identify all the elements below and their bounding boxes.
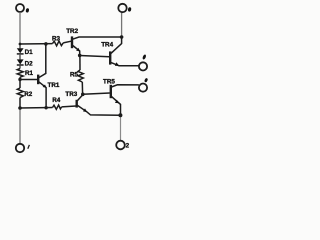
- svg-text:TR5: TR5: [103, 78, 115, 85]
- wire D2 to R1: [19, 66, 21, 69]
- transistor TR4: [101, 13, 139, 66]
- terminal T5 bottom-right: [116, 141, 129, 150]
- transistor TR3: [65, 91, 120, 115]
- node TR1 base junction: [18, 78, 21, 81]
- node TR2 emitter junction: [78, 54, 82, 58]
- node bottom-right junction: [118, 113, 122, 117]
- wire top-left vertical: [19, 12, 21, 44]
- transistor TR1: [38, 44, 60, 108]
- svg-text:D2: D2: [25, 60, 34, 67]
- wire R2 to bottom terminal: [19, 98, 21, 107]
- svg-text:TR2: TR2: [66, 28, 78, 35]
- wire TR2 emitter to TR4 base: [80, 56, 110, 57]
- wire branch to R3: [20, 43, 53, 45]
- svg-text:2: 2: [126, 143, 130, 150]
- resistor R2: [17, 88, 32, 98]
- wire R1 to TR1-base node: [19, 77, 21, 88]
- node R4 branch junction: [18, 106, 22, 110]
- diode D1: [17, 48, 33, 56]
- wire TR1 base: [20, 79, 37, 81]
- node TR1 collector junction: [44, 42, 48, 46]
- svg-text:R1: R1: [25, 70, 34, 77]
- diode D2: [17, 59, 33, 67]
- node TR2 collector junction: [120, 35, 124, 39]
- terminal T2 top-right: [118, 4, 131, 12]
- wire branch to R4: [20, 107, 53, 110]
- terminal T6 bottom-left: [16, 144, 30, 152]
- svg-text:R5: R5: [70, 71, 79, 78]
- svg-text:D1: D1: [25, 49, 34, 56]
- svg-text:TR3: TR3: [65, 91, 77, 98]
- wire to TR5 base: [83, 93, 110, 94]
- node junction at left rail and R3 branch: [19, 43, 22, 46]
- wire R3 to TR2 base: [63, 41, 71, 43]
- terminal T4 right mid (TR5 collector): [139, 78, 148, 92]
- svg-text:TR4: TR4: [101, 42, 113, 49]
- resistor R5: [70, 70, 83, 82]
- resistor R3: [52, 35, 63, 45]
- terminal T3 right upper (TR4 emitter): [139, 54, 147, 70]
- wire R4 to TR3 base: [62, 105, 76, 108]
- wire D1-D2: [19, 44, 21, 48]
- node TR1 emitter junction: [44, 106, 47, 109]
- transistor TR2: [66, 28, 121, 55]
- resistor R4: [52, 97, 61, 109]
- svg-text:R2: R2: [24, 91, 33, 98]
- wire down to R5: [79, 55, 81, 70]
- terminal T1 top-left: [16, 4, 29, 13]
- svg-text:R4: R4: [52, 97, 61, 104]
- resistor R1: [17, 69, 33, 78]
- transistor TR5: [103, 78, 139, 140]
- wire R5 to TR5 base node: [81, 82, 83, 94]
- node TR3 collector junction: [81, 93, 85, 97]
- svg-text:TR1: TR1: [48, 82, 60, 89]
- svg-text:R3: R3: [52, 35, 61, 42]
